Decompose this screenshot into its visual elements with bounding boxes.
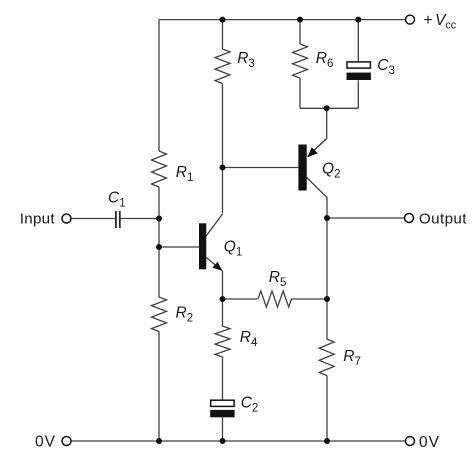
svg-text:0V: 0V: [419, 434, 440, 451]
node output junction: [324, 215, 330, 221]
svg-text:C2: C2: [241, 395, 259, 415]
svg-text:R3: R3: [237, 50, 255, 70]
node R6-C3 tie junction: [324, 105, 330, 111]
wire Q1 emitter leg down to R4/R5 node: [222, 271, 224, 299]
node 0V left terminal: [62, 437, 71, 446]
svg-text:Q1: Q1: [224, 239, 242, 259]
node Input terminal: [62, 214, 71, 223]
wire Q2 collector leg / output column: [307, 178, 327, 442]
node 0V left junction: [156, 438, 162, 444]
wire Q1 base: [159, 246, 199, 248]
wire bottom 0V rail: [71, 440, 405, 442]
svg-text:0V: 0V: [35, 434, 56, 451]
wire Q2 emitter lead from tie point: [309, 108, 327, 155]
svg-text:C1: C1: [108, 190, 126, 210]
transistor Q2: [298, 139, 326, 191]
node +Vcc terminal: [406, 15, 415, 24]
node R5 / R7 junction: [324, 296, 330, 302]
wire left branch vertical (R1/R2 leg): [158, 20, 160, 441]
node 0V R7 junction: [324, 438, 330, 444]
svg-text:R6: R6: [316, 50, 334, 70]
svg-text:R5: R5: [269, 269, 287, 289]
svg-text:R2: R2: [176, 305, 194, 325]
node Q1 base junction: [156, 244, 162, 250]
svg-text:R1: R1: [176, 164, 194, 184]
resistor R4: [215, 326, 230, 357]
wire input lead: [71, 218, 159, 220]
resistor R2: [152, 297, 167, 332]
node Output terminal: [405, 214, 414, 223]
resistor R5: [258, 291, 292, 307]
node input junction: [156, 216, 162, 222]
wire R4 leads and C2 lead: [222, 299, 224, 441]
node C3 top junction: [355, 17, 361, 23]
svg-text:R4: R4: [240, 329, 258, 349]
wire Q2 base horizontal: [223, 167, 299, 169]
resistor R6: [293, 44, 308, 78]
node 0V C2 junction: [220, 438, 226, 444]
svg-text:C3: C3: [377, 57, 395, 77]
node R3 top junction: [220, 17, 226, 23]
resistor R7: [319, 339, 334, 376]
capacitor C2: [210, 400, 234, 417]
node 0V right terminal: [406, 437, 415, 446]
svg-text:Output: Output: [419, 210, 467, 227]
svg-text:Input: Input: [20, 210, 56, 227]
capacitor C1: [116, 211, 120, 228]
wire top +Vcc rail: [159, 19, 405, 21]
wire R6/C3 bottom tie: [300, 107, 358, 109]
svg-text:+Vcc: +Vcc: [424, 12, 457, 32]
node Q1 emitter / R4 / R5 junction: [220, 296, 226, 302]
wire R3 / Q1 collector vertical: [222, 20, 224, 214]
node Q2 base junction: [220, 165, 226, 171]
transistor Q1: [199, 214, 223, 271]
node R6 top junction: [297, 17, 303, 23]
svg-text:R7: R7: [343, 348, 361, 368]
wire output lead: [327, 217, 404, 219]
resistor R3: [215, 49, 230, 84]
resistor R1: [152, 151, 167, 187]
wire R6 branch: [299, 20, 301, 109]
wire C3 branch: [357, 20, 359, 109]
capacitor C3: [347, 62, 371, 80]
wire R5 leads: [223, 298, 328, 300]
svg-text:Q2: Q2: [322, 160, 340, 180]
